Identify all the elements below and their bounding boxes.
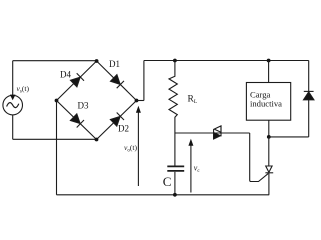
load box Carga inductiva [246, 83, 290, 121]
node capacitor bottom [173, 193, 177, 197]
diode D1 [111, 75, 121, 85]
node bridge top [95, 59, 99, 63]
wire source bottom lead [12, 115, 14, 139]
diode freewheel [304, 92, 314, 100]
svg-text:D4: D4 [60, 70, 71, 80]
arrow polarity marker at source top [10, 95, 16, 101]
node load bottom junction [267, 135, 271, 139]
wire left vertical source top lead [12, 61, 14, 96]
wire top rail [144, 60, 309, 62]
node bridge right [135, 99, 139, 103]
diac [213, 129, 215, 139]
arrow Vc [190, 145, 192, 193]
svg-text:vc: vc [194, 164, 201, 175]
capacitor C [167, 165, 184, 167]
node bridge bottom [95, 138, 99, 142]
svg-text:RL: RL [188, 95, 198, 106]
wire bridge left corner down to bottom rail [56, 101, 58, 195]
svg-text:D3: D3 [78, 101, 89, 111]
node resistor top [173, 59, 177, 63]
thyristor SCR [268, 137, 270, 166]
diode D2 [110, 117, 120, 127]
wire freewheel diode upper lead [308, 61, 310, 92]
wire load top lead [268, 61, 270, 83]
wire bottom rail [57, 194, 270, 196]
wire diac horizontal from resistor [175, 132, 250, 134]
diode D4 [71, 77, 81, 87]
wire freewheel bottom link [269, 136, 309, 138]
AC source V1 [3, 95, 23, 115]
wire riser up to top rail [143, 61, 145, 101]
svg-text:inductiva: inductiva [250, 98, 282, 108]
diode bridge outline [57, 61, 137, 140]
wire gate path down and to SCR [250, 133, 269, 182]
svg-text:C: C [163, 174, 172, 189]
svg-text:D2: D2 [118, 124, 129, 134]
resistor RL [169, 61, 177, 167]
svg-text:vs(t): vs(t) [17, 84, 30, 95]
node bridge left [55, 99, 59, 103]
diode D3 [70, 114, 80, 124]
node load top [267, 59, 271, 63]
svg-text:vo(t): vo(t) [124, 143, 138, 154]
wire capacitor bottom lead [174, 172, 176, 195]
wire bottom AC horizontal to bridge bottom [13, 138, 97, 140]
wire load bottom lead [268, 120, 270, 137]
svg-text:D1: D1 [109, 59, 120, 69]
wire freewheel diode lower lead [308, 100, 310, 137]
arrow v_o(t) [137, 112, 139, 187]
wire top-left from source to bridge top [13, 60, 97, 62]
wire bridge right corner to riser [137, 100, 144, 102]
